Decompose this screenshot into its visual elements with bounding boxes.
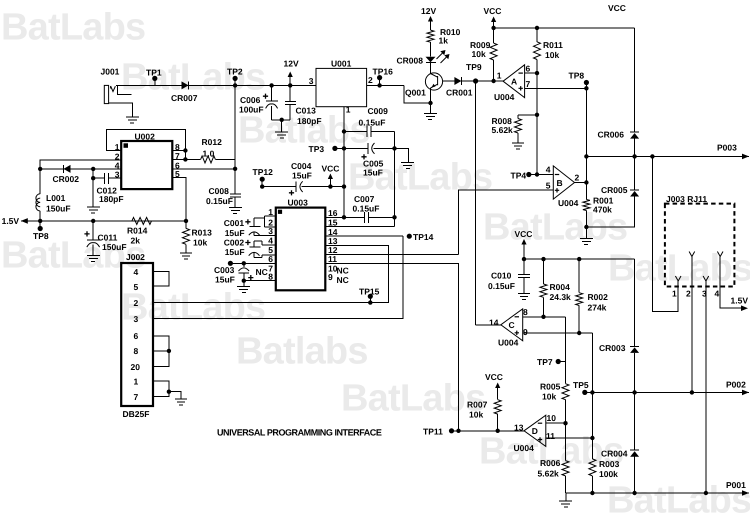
svg-text:TP15: TP15: [359, 287, 380, 297]
wire VCC mid rail: [524, 258, 635, 260]
svg-text:5: 5: [175, 169, 180, 179]
connector J003 RJ11: [665, 204, 735, 287]
svg-text:6: 6: [526, 64, 531, 74]
junction U002 pin7/R012: [183, 157, 187, 161]
wire C007 right to U003 pin15: [394, 217, 396, 226]
op-amp U004 B: [553, 166, 574, 199]
junction emitter: [428, 101, 432, 105]
wire opamp D pin11: [546, 437, 593, 439]
svg-text:3: 3: [702, 289, 707, 299]
arrow 1.5V right: [741, 305, 748, 311]
wire CR003 column top: [634, 259, 636, 346]
svg-text:C011: C011: [98, 233, 118, 243]
svg-text:1.0: 1.0: [203, 149, 215, 159]
svg-text:VCC: VCC: [608, 3, 626, 13]
svg-text:15uF: 15uF: [363, 167, 383, 177]
svg-text:CR005: CR005: [601, 185, 628, 195]
svg-text:15uF: 15uF: [215, 275, 235, 285]
resistor R006: [562, 461, 569, 476]
svg-text:TP8: TP8: [33, 231, 49, 241]
svg-text:R011: R011: [543, 40, 563, 50]
junction P003/CR006: [632, 154, 636, 158]
svg-text:Batlabs: Batlabs: [236, 331, 368, 373]
wire main top rail: [116, 84, 316, 86]
svg-text:5: 5: [134, 282, 139, 292]
wire J001 ring stub: [117, 85, 131, 94]
TP8 dot: [584, 80, 589, 85]
svg-text:C002: C002: [224, 237, 245, 247]
wire R006 top: [565, 423, 567, 460]
resistor R009: [490, 43, 497, 60]
ground (C005): [401, 162, 414, 164]
svg-text:4: 4: [546, 165, 551, 175]
junction U002 pin8 loop: [183, 148, 187, 152]
junction pin4 line / C012 gnd line: [91, 167, 95, 171]
junction U003 pin11 line: [456, 429, 460, 433]
svg-text:CR002: CR002: [53, 174, 80, 184]
junction P003/TP8 line: [584, 154, 588, 158]
junction TP4/R008 line: [535, 172, 539, 176]
svg-text:U003: U003: [288, 198, 309, 208]
svg-text:10k: 10k: [472, 49, 486, 59]
svg-text:R014: R014: [127, 226, 148, 236]
TP3 dot: [332, 146, 337, 151]
wire U002 pin6 to TP2 column: [172, 168, 235, 170]
wire P003: [586, 155, 749, 157]
junction R005/pin10: [563, 421, 567, 425]
wire opamp B pin5 from U003 pin12: [459, 190, 554, 254]
svg-text:TP1: TP1: [146, 68, 162, 78]
TP7 dot: [556, 359, 561, 364]
svg-text:R004: R004: [550, 282, 571, 292]
TP14 dot: [407, 234, 412, 239]
svg-text:R005: R005: [540, 382, 561, 392]
svg-text:1: 1: [134, 377, 139, 387]
node C003 wire end: [228, 261, 233, 266]
wire TP9 down to opamp C output: [475, 81, 477, 325]
svg-text:TP3: TP3: [309, 144, 325, 154]
junction pin9/R002: [577, 331, 581, 335]
svg-text:12V: 12V: [284, 59, 299, 69]
svg-text:VCC: VCC: [484, 6, 502, 16]
resistor R007: [494, 400, 501, 414]
svg-text:20: 20: [131, 362, 141, 372]
wire P002 to CR004: [634, 392, 636, 450]
wire U001 pin1 down: [343, 107, 345, 218]
wire U003 pin11 to TP11 rail: [325, 263, 458, 431]
wire C012 to ground: [92, 178, 94, 207]
svg-text:10: 10: [547, 413, 557, 423]
TP9 dot: [473, 78, 478, 83]
junction P001 dots: [590, 491, 594, 495]
svg-text:CR006: CR006: [598, 130, 625, 140]
wire J002 pins6-8-20 comb: [153, 336, 169, 367]
wire R011 node down to R008/TP4: [536, 73, 538, 174]
svg-text:8: 8: [523, 307, 528, 317]
junction gnd C006/C013: [280, 118, 284, 122]
capacitor C004 (polarized): [300, 181, 303, 192]
svg-text:9: 9: [523, 327, 528, 337]
svg-text:U002: U002: [135, 132, 156, 142]
wire R008 jog: [518, 114, 537, 116]
svg-text:TP7: TP7: [537, 357, 553, 367]
svg-text:15uF: 15uF: [292, 171, 312, 181]
wire U002 pin5 down: [172, 178, 186, 221]
junction P003/RJ11 pin1 line: [650, 154, 654, 158]
TP2 dot: [233, 76, 238, 81]
svg-text:U004: U004: [494, 92, 515, 102]
junction R007: [496, 429, 500, 433]
wire 1.5V rail: [21, 220, 186, 222]
wire C004 rail: [262, 186, 296, 188]
junction R013/U002 pin5: [184, 219, 188, 223]
junction R002 top: [577, 257, 581, 261]
wire CR003 to P002: [634, 353, 636, 393]
wire pin9 node down to R003: [591, 333, 593, 438]
junction R004 top: [541, 257, 545, 261]
svg-text:4: 4: [268, 235, 273, 245]
wire U003 pin12 to opamp B pin5: [325, 253, 458, 255]
capacitor C003 (pin6 to gnd): [239, 268, 250, 271]
wire opamp D pin10: [546, 422, 566, 424]
junction pins1-7: [167, 390, 171, 394]
wire RJ11 pin1 to P003: [652, 156, 678, 311]
ground (C010): [518, 292, 530, 294]
wire TP14 column down to J002 pin3 wire: [153, 236, 403, 318]
svg-text:15uF: 15uF: [225, 228, 245, 238]
svg-text:0.15uF: 0.15uF: [206, 196, 233, 206]
svg-text:C007: C007: [354, 194, 375, 204]
wire CR008 to Q001 collector: [430, 63, 432, 74]
svg-text:10k: 10k: [542, 392, 556, 402]
svg-text:1: 1: [497, 71, 502, 81]
svg-text:NC: NC: [337, 275, 349, 285]
junction C003 stem: [242, 261, 246, 265]
wire P001 / ground rail: [566, 492, 750, 494]
wire opamp C pin9: [523, 332, 593, 334]
TP8 left dot: [38, 226, 43, 231]
svg-text:UNIVERSAL PROGRAMMING INTERFAC: UNIVERSAL PROGRAMMING INTERFACE: [217, 427, 382, 437]
ground (J001): [126, 116, 139, 118]
junction C005 right: [392, 146, 396, 150]
diode CR002: [64, 165, 71, 173]
svg-text:D: D: [532, 426, 538, 436]
junction C009: [342, 129, 346, 133]
wire U003 pin16 (C007): [325, 216, 344, 218]
wire C007: [344, 216, 364, 218]
svg-text:470k: 470k: [593, 205, 612, 215]
svg-text:7: 7: [526, 79, 531, 89]
junction C011: [91, 219, 95, 223]
junction pin6/R011: [535, 71, 539, 75]
TP16 dot: [377, 75, 382, 80]
junction R001 bottom: [584, 225, 588, 229]
diode CR004: [630, 451, 639, 457]
capacitor C002 (U003 pins4-5): [249, 252, 260, 255]
svg-text:0.15uF: 0.15uF: [488, 281, 515, 291]
VCC arrow mid: [521, 239, 526, 245]
diode CR007: [182, 81, 189, 89]
svg-text:CR003: CR003: [599, 343, 626, 353]
svg-text:12V: 12V: [421, 6, 436, 16]
svg-text:TP14: TP14: [413, 232, 434, 242]
svg-text:C001: C001: [224, 218, 245, 228]
svg-text:U001: U001: [331, 59, 352, 69]
svg-text:C013: C013: [296, 106, 317, 116]
junction C006: [269, 83, 273, 87]
arrow 1.5V left: [21, 218, 28, 224]
wire U003 pin13 to J002 pin2 wire: [153, 245, 389, 302]
svg-text:3: 3: [134, 314, 139, 324]
svg-text:5: 5: [546, 181, 551, 191]
svg-text:TP8: TP8: [569, 71, 585, 81]
RJ11 pin 4 contact: [717, 252, 723, 257]
RJ11 pin 2 contact: [689, 252, 695, 257]
RJ11 pin 3 contact: [703, 276, 709, 281]
diode CR001: [454, 77, 461, 85]
resistor R012 (U002 pin7): [201, 156, 216, 163]
junction R008 node: [535, 113, 539, 117]
svg-text:7: 7: [134, 392, 139, 402]
connector J002 DB25F: [121, 263, 153, 406]
capacitor C011: [87, 243, 100, 247]
junction R009/TP9 wire: [491, 79, 495, 83]
op-amp U004 D: [524, 415, 546, 446]
resistor R014: [132, 217, 152, 224]
junction P002/CR diode column: [632, 390, 636, 394]
svg-text:DB25F: DB25F: [123, 409, 150, 419]
junction 12V: [288, 83, 292, 87]
wire pin4-pin3 tie: [92, 169, 94, 178]
arrow P003: [742, 154, 749, 160]
svg-text:0.15uF: 0.15uF: [353, 204, 380, 214]
svg-text:J001: J001: [101, 67, 120, 77]
TP4 dot: [526, 172, 531, 177]
svg-text:VCC: VCC: [515, 229, 533, 239]
wire L001 to 1.5V rail: [39, 211, 41, 221]
ground (R001): [585, 227, 587, 238]
wire CR004 to P001: [634, 457, 636, 493]
svg-text:C: C: [509, 320, 515, 330]
ground (C006/C013): [275, 131, 288, 133]
diode CR005: [630, 191, 639, 197]
svg-text:P003: P003: [717, 143, 737, 153]
capacitor C005 (polarized): [372, 143, 375, 154]
wire C011 stem: [92, 221, 94, 240]
svg-text:J003 RJ11: J003 RJ11: [666, 194, 707, 204]
svg-text:C003: C003: [214, 265, 235, 275]
svg-text:8: 8: [134, 346, 139, 356]
wire U002 pin1-pin8 loop: [107, 129, 186, 159]
svg-text:1: 1: [115, 142, 120, 152]
wire U003 pin15: [325, 226, 394, 228]
svg-text:4: 4: [134, 267, 139, 277]
junction C010: [522, 257, 526, 261]
ground (C003): [243, 281, 245, 287]
TP5 dot: [582, 390, 587, 395]
ground (R008): [512, 142, 524, 144]
svg-text:1k: 1k: [439, 35, 449, 45]
svg-text:BatLabs: BatLabs: [1, 7, 145, 49]
svg-text:J002: J002: [126, 252, 145, 262]
connector J001 (phone jack): [104, 85, 108, 103]
svg-text:R002: R002: [588, 292, 609, 302]
svg-text:15uF: 15uF: [225, 247, 245, 257]
svg-text:NC: NC: [337, 266, 349, 276]
svg-text:2: 2: [686, 289, 691, 299]
wire TP2 column: [234, 85, 236, 194]
svg-text:9: 9: [328, 272, 333, 282]
wire CR001 to R009 node: [461, 80, 503, 82]
wire J002 pins1-7 comb: [153, 381, 169, 397]
svg-text:BatLabs: BatLabs: [341, 378, 485, 420]
wire C009 right down: [394, 132, 396, 218]
resistor R004: [540, 284, 547, 297]
wire Q001 emitter: [430, 88, 432, 103]
svg-text:VCC: VCC: [322, 164, 340, 174]
svg-text:P001: P001: [726, 480, 746, 490]
svg-text:R012: R012: [202, 137, 223, 147]
capacitor C001 (U003 pins1-3): [249, 232, 260, 235]
TP11 dot: [449, 428, 454, 433]
RJ11 pin 1 contact: [675, 276, 681, 281]
svg-text:C004: C004: [291, 161, 312, 171]
ground (P001 rail): [565, 493, 567, 501]
svg-text:C010: C010: [491, 271, 512, 281]
svg-text:2: 2: [368, 75, 373, 85]
wire TP8 vertical: [585, 83, 587, 183]
svg-text:NC: NC: [256, 267, 268, 277]
wire CR005 top: [634, 156, 636, 190]
svg-text:TP4: TP4: [511, 171, 527, 181]
svg-text:VCC: VCC: [485, 372, 503, 382]
resistor R013: [183, 228, 190, 244]
resistor R002: [576, 293, 583, 306]
ground (J002): [175, 398, 187, 400]
TP12 dot: [260, 177, 265, 182]
arrow P001: [742, 490, 749, 496]
junction CR002 wire corner: [38, 167, 42, 171]
svg-text:U004: U004: [514, 443, 535, 453]
ground (R013): [180, 252, 192, 254]
svg-text:10k: 10k: [193, 237, 207, 247]
op-amp U004 C: [501, 309, 523, 341]
svg-text:TP11: TP11: [423, 426, 443, 436]
junction P002/RJ11 pin2: [690, 390, 694, 394]
svg-text:BatLabs: BatLabs: [1, 235, 145, 277]
junction pin3 line: [91, 176, 95, 180]
svg-text:3: 3: [115, 170, 120, 180]
svg-text:C008: C008: [209, 186, 230, 196]
TP15 dot: [368, 294, 373, 299]
svg-text:C009: C009: [368, 106, 389, 116]
wire RJ11 pin3 to P001: [705, 281, 707, 493]
wire opamp A pin6: [525, 72, 537, 74]
VCC arrow: [491, 17, 496, 23]
diode CR003: [630, 347, 639, 353]
svg-text:1: 1: [346, 105, 351, 115]
svg-text:CR007: CR007: [171, 93, 198, 103]
svg-text:274k: 274k: [588, 303, 607, 313]
wire C006 stem: [271, 85, 273, 101]
svg-text:1: 1: [672, 289, 677, 299]
junction pin8/R004: [541, 315, 545, 319]
svg-text:150uF: 150uF: [46, 204, 71, 214]
wire U002 pin3: [93, 177, 105, 179]
svg-text:6: 6: [134, 331, 139, 341]
junction pin8 comb: [167, 349, 171, 353]
svg-text:TP12: TP12: [253, 167, 274, 177]
wire opamp B output: [575, 182, 587, 184]
resistor R008: [515, 119, 522, 134]
wire opamp C pin8: [523, 316, 566, 318]
svg-text:1.5V: 1.5V: [731, 296, 749, 306]
svg-text:R003: R003: [599, 459, 620, 469]
wire C013 stem: [289, 85, 291, 101]
svg-text:14: 14: [489, 318, 499, 328]
arrow P002: [742, 390, 749, 396]
svg-text:A: A: [511, 77, 517, 87]
svg-text:TP2: TP2: [227, 67, 243, 77]
wire RJ11 pin2 to P002: [691, 257, 693, 393]
svg-text:24.3k: 24.3k: [550, 292, 572, 302]
wire J001 sleeve to ground: [109, 103, 133, 117]
svg-text:3: 3: [309, 76, 314, 86]
svg-text:4: 4: [715, 289, 720, 299]
svg-text:180pF: 180pF: [297, 116, 322, 126]
IC U002: [121, 141, 172, 189]
svg-text:2: 2: [134, 298, 139, 308]
svg-text:BatLabs: BatLabs: [608, 248, 750, 290]
svg-text:5.62k: 5.62k: [538, 468, 560, 478]
wire U003 pin8: [244, 280, 276, 282]
wire U001 pin2 to TP16: [367, 84, 404, 86]
svg-text:P002: P002: [726, 380, 746, 390]
svg-text:100k: 100k: [599, 469, 618, 479]
junction VCC/R009: [491, 26, 495, 30]
junction VCC/R011: [535, 26, 539, 30]
wire J002 pins4-5 loop: [153, 272, 169, 287]
op-amp U004 A: [503, 65, 524, 98]
wire opamp A pin7 to TP8 line: [525, 87, 587, 89]
svg-text:8: 8: [268, 272, 273, 282]
ground (C011): [87, 255, 100, 257]
svg-text:Q001: Q001: [405, 88, 426, 98]
junction VCC C004: [328, 184, 332, 188]
svg-text:U004: U004: [498, 338, 519, 348]
wire VCC rail: [494, 27, 635, 29]
VCC arrow C004: [328, 174, 333, 180]
junction C007 right: [392, 215, 396, 219]
wire CR006 to P003: [634, 139, 636, 157]
wire C005 gnd spur: [395, 148, 409, 162]
12V arrow top: [428, 16, 433, 22]
junction C007 left: [342, 215, 346, 219]
svg-text:150uF: 150uF: [102, 242, 127, 252]
capacitor C006: [266, 104, 278, 108]
ground (C012): [87, 206, 100, 208]
svg-text:2: 2: [575, 173, 580, 183]
wire RJ11 pin4 to 1.5V: [720, 257, 741, 309]
wire pin8 node down: [565, 317, 567, 384]
junction L001/TP8: [38, 219, 42, 223]
diode CR006: [630, 133, 639, 139]
svg-text:0.15uF: 0.15uF: [359, 118, 386, 128]
svg-text:R007: R007: [467, 400, 488, 410]
svg-text:180pF: 180pF: [99, 194, 124, 204]
LED CR008: [426, 57, 436, 63]
svg-text:5.62k: 5.62k: [492, 125, 514, 135]
